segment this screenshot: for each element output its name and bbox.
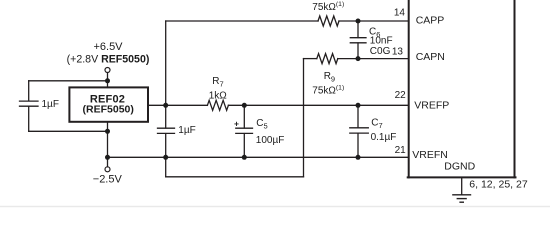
resistor R7 zigzag <box>207 100 228 110</box>
op-amp U1 REF02 box <box>69 87 148 121</box>
junction dot C5 bottom <box>242 155 247 160</box>
svg-text:(REF5050): (REF5050) <box>83 103 134 115</box>
svg-text:(+2.8V REF5050): (+2.8V REF5050) <box>67 53 150 65</box>
wire stub terminal to junction <box>107 73 109 81</box>
svg-text:14: 14 <box>394 8 406 19</box>
wire top-left horizontal to C1 <box>29 80 108 82</box>
node -2.5V supply terminal <box>105 167 110 172</box>
wire REF02 output to node <box>148 104 166 106</box>
junction dot C7 top <box>356 103 361 108</box>
svg-text:VREFP: VREFP <box>414 100 449 112</box>
svg-text:CAPP: CAPP <box>416 14 445 26</box>
junction dot C7 bottom <box>356 155 361 160</box>
wire VREFP rail to IC <box>228 104 408 106</box>
svg-text:+: + <box>234 119 239 129</box>
wire VREFN rail <box>108 156 409 158</box>
wire detour vertical up to R9 <box>303 59 305 177</box>
wire CAPN rail to IC <box>338 58 409 60</box>
svg-text:DGND: DGND <box>444 160 475 172</box>
wire node vertical up to top rail <box>165 21 167 105</box>
faint page rule at bottom <box>0 206 550 208</box>
junction dot C5 top <box>242 103 247 108</box>
svg-text:10nF: 10nF <box>370 36 393 47</box>
node A: REF02 output junction <box>163 103 168 108</box>
capacitor C5 leads <box>243 105 245 128</box>
svg-text:−2.5V: −2.5V <box>93 174 123 186</box>
svg-text:CAPN: CAPN <box>416 51 445 63</box>
svg-text:C0G: C0G <box>370 46 391 57</box>
IC box ADS127x <box>408 0 410 177</box>
capacitor C6 leads <box>357 21 359 38</box>
junction dot C6 top <box>356 19 361 24</box>
junction dot VREFN at 1uF <box>163 155 168 160</box>
resistor R9 zigzag <box>317 54 338 64</box>
junction dot left loop bottom <box>105 129 110 134</box>
capacitor C7 leads <box>357 105 359 127</box>
wire detour horizontal <box>166 176 304 178</box>
svg-text:+6.5V: +6.5V <box>93 41 123 53</box>
svg-text:21: 21 <box>395 145 407 156</box>
resistor 75k top zigzag <box>318 16 339 26</box>
svg-text:100µF: 100µF <box>256 135 285 146</box>
ground symbol <box>453 194 471 196</box>
svg-text:1µF: 1µF <box>178 125 195 136</box>
junction dot C6 bottom <box>356 56 361 61</box>
wire node down to mid 1uF cap <box>165 105 167 128</box>
junction dot -2.5V node <box>105 155 110 160</box>
capacitor C 1uF left, top lead <box>28 81 30 101</box>
capacitor 1uF left plates <box>20 100 39 102</box>
wire bottom-left horizontal <box>29 130 108 132</box>
wire VREFP rail left segment <box>166 104 208 106</box>
svg-text:6, 12, 25, 27: 6, 12, 25, 27 <box>469 179 528 191</box>
wire detour down from VREFN node <box>165 157 167 177</box>
capacitor C 1uF left, bottom lead <box>28 106 30 131</box>
svg-text:1µF: 1µF <box>42 99 59 110</box>
node +6.5V supply terminal <box>105 68 110 73</box>
wire CAPN rail left <box>304 58 317 60</box>
wire top rail (CAPP) <box>166 20 318 22</box>
svg-text:13: 13 <box>392 47 404 58</box>
wire vertical supply column through REF02 <box>107 81 109 88</box>
svg-text:0.1µF: 0.1µF <box>371 132 397 143</box>
svg-text:1kΩ: 1kΩ <box>209 90 228 101</box>
svg-text:22: 22 <box>395 90 407 101</box>
svg-text:VREFN: VREFN <box>412 149 448 161</box>
junction dot below +6.5V <box>105 78 110 83</box>
wire DGND stub <box>461 178 463 194</box>
capacitor 1uF mid plates <box>158 127 175 129</box>
